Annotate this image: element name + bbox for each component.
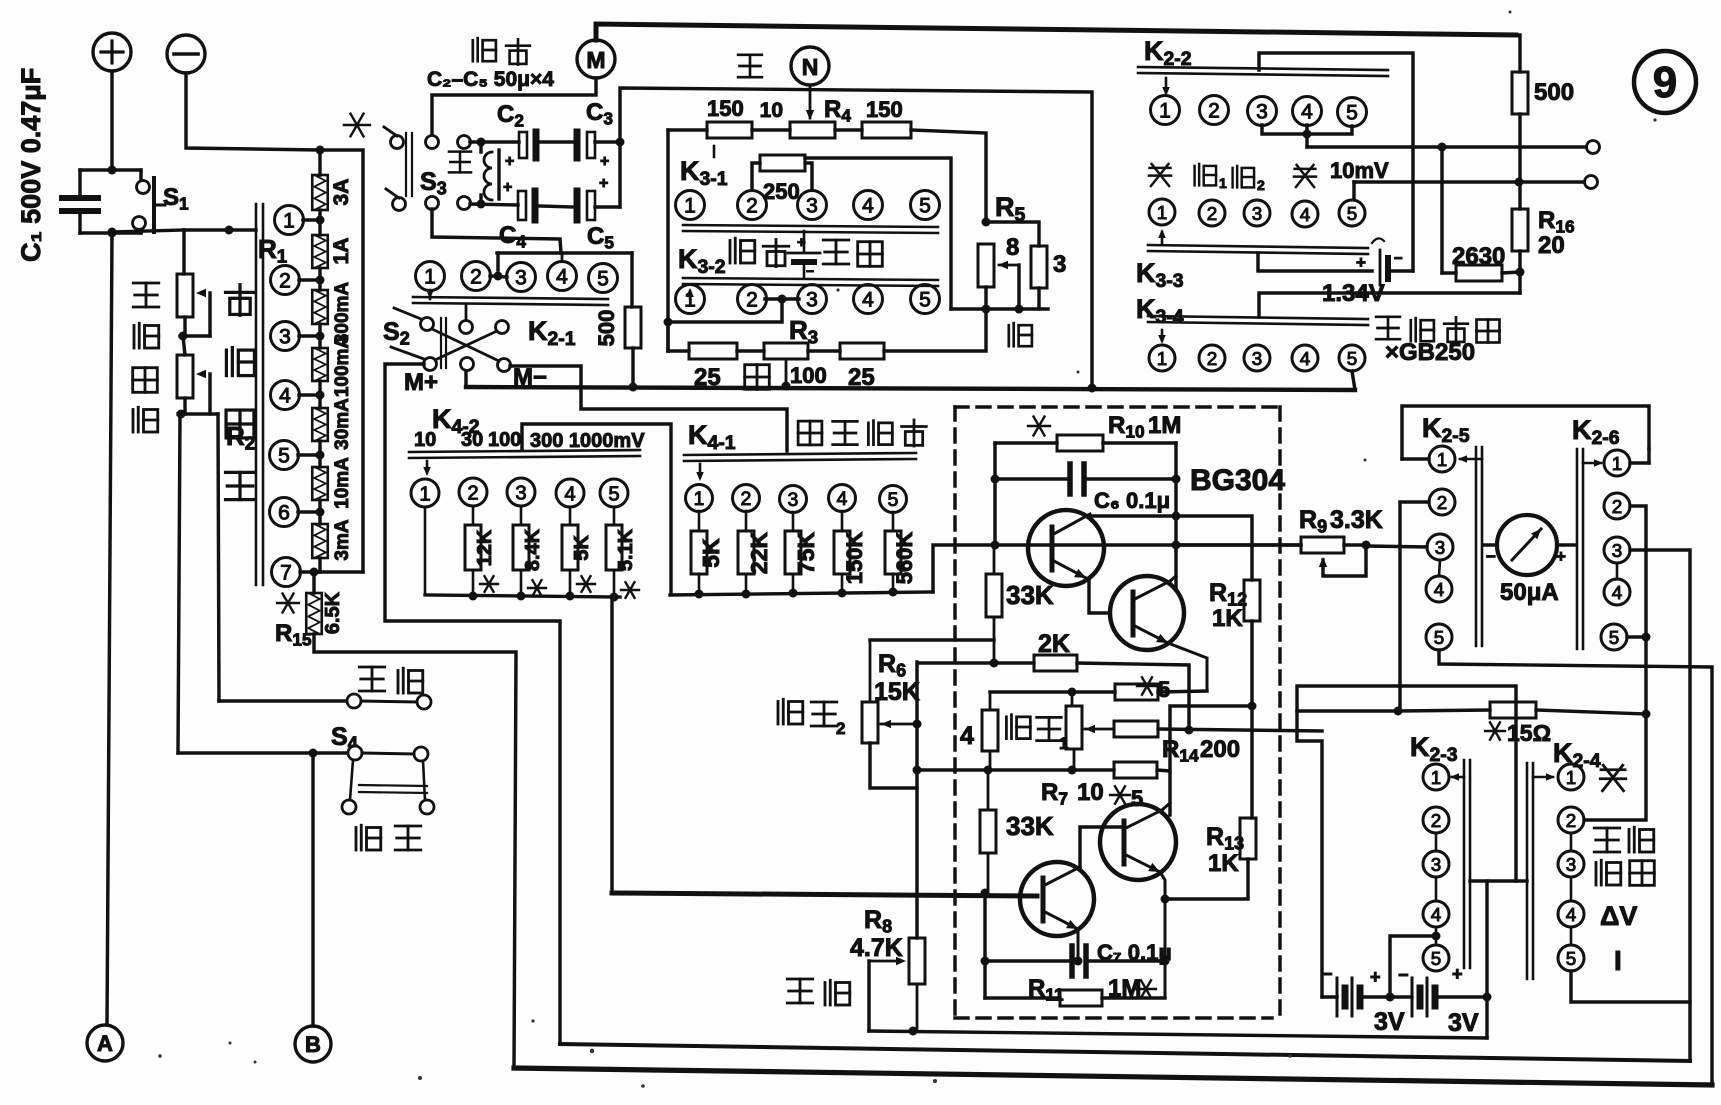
terminal - (negative output)	[167, 35, 205, 73]
K4-2 wiper rail	[409, 450, 640, 452]
K4-2 bus	[425, 595, 620, 597]
svg-text:15Ω: 15Ω	[1507, 720, 1551, 746]
resistor R16 20	[1518, 182, 1521, 209]
arrow K2-3 contact1	[1452, 776, 1464, 779]
K2-6 wiper rail	[1576, 449, 1579, 649]
battery compensation cell	[803, 231, 806, 252]
shunt resistor 1A	[312, 235, 328, 268]
K2-4 contacts	[1558, 764, 1584, 790]
shunt resistor 10mA	[312, 467, 328, 500]
svg-text:3: 3	[1431, 854, 1441, 875]
capacitor C5	[539, 206, 573, 207]
R5 bottom rail	[951, 307, 1048, 310]
wire K2-6 contact1	[1630, 461, 1649, 464]
wire R1 top to bracket	[184, 228, 256, 231]
resistor R14 200	[1114, 721, 1158, 737]
wire S3 lower to K2-1 select	[432, 209, 561, 253]
label cu (coarse)	[745, 365, 770, 390]
svg-text:C₂–C₅ 50μ×4: C₂–C₅ 50μ×4	[427, 68, 554, 91]
link contacts 3-4	[1439, 560, 1440, 576]
R3 wiper down to bus	[785, 359, 788, 386]
switch block K2-1 contacts	[416, 262, 445, 291]
wire R6 top link	[870, 638, 994, 641]
svg-text:100: 100	[488, 429, 521, 451]
svg-text:2: 2	[1207, 203, 1217, 224]
resistor 5K (K4-1)	[698, 511, 701, 531]
capacitor C7	[985, 959, 1068, 962]
dashed box BG304	[955, 407, 1280, 1018]
svg-text:C₁ 500V 0.47μF: C₁ 500V 0.47μF	[16, 68, 46, 262]
svg-text:4: 4	[1431, 904, 1441, 925]
potentiometer R3	[737, 349, 764, 352]
svg-text:150K: 150K	[842, 532, 867, 585]
svg-text:−: −	[1322, 964, 1333, 984]
wire K2-5 contact5 bottom	[1439, 650, 1712, 1085]
terminal B	[295, 1026, 331, 1062]
svg-text:4: 4	[1300, 348, 1310, 369]
tap 2	[271, 266, 300, 295]
wiper arrow from R14	[1085, 725, 1095, 733]
svg-text:+: +	[1356, 253, 1366, 272]
svg-text:5: 5	[1346, 102, 1358, 125]
resistor R7 10	[1114, 762, 1157, 778]
shunt resistor 3A	[312, 175, 328, 210]
svg-text:10: 10	[760, 99, 783, 122]
K2-5 contacts	[1429, 446, 1455, 472]
wire 2630/R16 to K3-4 rail	[1259, 293, 1520, 317]
svg-text:4: 4	[862, 195, 874, 218]
svg-text:1: 1	[1612, 453, 1622, 474]
resistor 250	[752, 163, 760, 190]
shunt resistor 30mA	[312, 408, 328, 441]
svg-text:5: 5	[1431, 948, 1441, 969]
capacitor C6	[995, 477, 1066, 480]
svg-text:2: 2	[470, 266, 482, 289]
capacitor C1 loop	[78, 170, 81, 198]
tap 5	[270, 441, 299, 470]
svg-text:N: N	[802, 54, 819, 80]
tap 1	[275, 206, 304, 235]
wire R10/C6 right vertical	[1174, 443, 1177, 590]
svg-text:5: 5	[1158, 677, 1170, 702]
svg-text:−: −	[1394, 250, 1403, 267]
svg-text:−: −	[1486, 547, 1496, 566]
svg-text:I: I	[1614, 945, 1622, 976]
svg-text:500: 500	[594, 310, 619, 347]
long output wire to meter	[1176, 543, 1301, 546]
K4-1 wiper rail	[684, 453, 916, 455]
capacitor C2	[470, 140, 519, 143]
svg-text:5: 5	[1609, 627, 1619, 648]
wire from C1 loop to A	[107, 233, 112, 1024]
svg-text:3: 3	[1252, 348, 1262, 369]
transistor Q4	[1100, 804, 1176, 880]
svg-text:2: 2	[1612, 496, 1622, 517]
Q1 collector wire	[1090, 516, 1252, 580]
svg-text:25: 25	[694, 364, 721, 391]
R5 node and wires	[982, 218, 991, 227]
wire R6 node down to R8	[915, 662, 918, 938]
wire R12 to R13	[1250, 621, 1253, 818]
svg-text:4: 4	[556, 266, 568, 289]
svg-text:50μA: 50μA	[1500, 579, 1559, 606]
svg-text:1M: 1M	[1148, 412, 1181, 439]
svg-text:+: +	[1452, 964, 1463, 984]
tap 7	[272, 558, 301, 587]
wire K2-3 4-5 to battery mid	[1435, 927, 1438, 945]
svg-text:30: 30	[461, 429, 483, 451]
meter M circle	[577, 40, 615, 78]
capacitor C4	[470, 204, 518, 205]
wire K4-1 bus up to BG304 input	[933, 545, 1301, 592]
output line 1	[1307, 145, 1586, 148]
meter block box	[1402, 406, 1649, 459]
svg-text:BG304: BG304	[1190, 464, 1285, 497]
rheostat R2 fine	[183, 336, 185, 355]
svg-text:1A: 1A	[330, 238, 353, 265]
resistor 33K upper	[993, 545, 996, 574]
svg-text:2: 2	[836, 719, 845, 738]
svg-text:22K: 22K	[746, 532, 772, 575]
K3-2 contacts	[676, 285, 705, 314]
svg-text:9: 9	[1653, 58, 1677, 107]
svg-text:6.5K: 6.5K	[322, 591, 344, 634]
wire R13 bottom	[1165, 859, 1248, 899]
wire right bus of shunt chain	[314, 570, 363, 573]
arrow K2-2	[1165, 78, 1168, 92]
wire 250 to R5 bottom rail	[805, 158, 951, 309]
Q3 collector to Q4 base	[1080, 827, 1121, 867]
svg-text:3: 3	[1252, 203, 1262, 224]
resistor 22K	[745, 511, 748, 531]
svg-text:5: 5	[919, 289, 931, 312]
resistor 12K	[472, 506, 475, 525]
paper specks	[418, 1076, 422, 1080]
svg-text:1: 1	[424, 266, 436, 289]
label zhong (middle)	[738, 55, 762, 77]
svg-text:3: 3	[806, 195, 818, 218]
svg-text:M+: M+	[404, 369, 438, 396]
arrow K2-4 contact1	[1533, 776, 1553, 779]
svg-text:33K: 33K	[1006, 811, 1054, 841]
current-range bracket (double line)	[255, 204, 258, 585]
pot R8	[909, 938, 925, 984]
svg-text:+: +	[1370, 967, 1381, 987]
svg-text:5: 5	[608, 483, 619, 505]
wire K2-1 feed with 500 resistor	[630, 253, 633, 307]
svg-text:4: 4	[1612, 582, 1622, 603]
K2-5 wiper rail	[1475, 447, 1478, 646]
resistor R13 1K	[1240, 818, 1256, 859]
Q4 emitter down	[1160, 872, 1165, 998]
resistor R12 1K	[1244, 580, 1260, 621]
wire dianfa up to R2 node	[218, 414, 219, 701]
svg-text:B: B	[305, 1032, 321, 1057]
svg-text:5K: 5K	[571, 535, 593, 561]
pot R6	[869, 640, 872, 702]
svg-text:300mA: 300mA	[332, 282, 353, 345]
resistor 8.4K	[520, 506, 523, 525]
wire K3 row to R5	[911, 130, 986, 222]
label dian-ya-ce-cheng (voltage ranges)	[798, 421, 822, 445]
svg-text:2: 2	[1208, 100, 1220, 123]
wire - terminal down to shunt chain	[186, 73, 363, 572]
svg-text:5: 5	[888, 489, 899, 511]
label xin-gong battery (zinc mercury cell)	[1376, 317, 1400, 339]
coil of filter	[484, 152, 492, 200]
wire C7/R11 left vertical	[983, 893, 986, 998]
svg-text:30mA: 30mA	[332, 398, 353, 450]
svg-text:4: 4	[1301, 101, 1313, 124]
K3-4 contacts	[1149, 345, 1175, 371]
wire K4-2 bus down to thick lower rail	[610, 597, 613, 893]
svg-text:150: 150	[866, 97, 903, 122]
K2-3 links 2-3-4	[1435, 833, 1438, 851]
svg-text:−: −	[806, 263, 814, 279]
resistor 75K	[792, 512, 795, 531]
link K2-6 contacts 3-4	[1616, 563, 1619, 579]
box 300 1000mV	[522, 424, 671, 594]
wire contacts 2-3 junction	[765, 297, 799, 300]
svg-text:3.3K: 3.3K	[1330, 506, 1383, 534]
tap 6	[270, 498, 299, 527]
wire R3 row	[666, 322, 669, 351]
top bus wire	[596, 24, 1516, 40]
svg-text:3: 3	[1612, 540, 1622, 561]
label cu-tiao (coarse adj)	[133, 283, 159, 307]
switch S3	[391, 136, 404, 149]
svg-text:5K: 5K	[698, 538, 724, 568]
svg-text:+: +	[503, 179, 512, 196]
resistor 500 (top right)	[1516, 34, 1520, 37]
svg-text:12K: 12K	[474, 529, 496, 566]
svg-text:2: 2	[467, 482, 478, 504]
bottom rail 2 (thick)	[514, 1068, 1712, 1085]
svg-text:1: 1	[1159, 100, 1171, 123]
svg-text:5: 5	[1434, 627, 1444, 648]
svg-text:4: 4	[837, 488, 848, 510]
Q3 emitter down	[1077, 929, 1080, 961]
K2-4 wiper rail	[1526, 763, 1529, 979]
resistor 5K (K4-2)	[569, 507, 572, 525]
label tiao-ling-2 (zero adj 2)	[778, 699, 803, 724]
svg-text:4: 4	[564, 483, 575, 505]
transistor Q2	[1110, 576, 1184, 650]
label jiao-zheng (calibrate)	[1594, 828, 1620, 852]
svg-text:25: 25	[848, 364, 875, 391]
svg-text:2: 2	[746, 195, 758, 218]
svg-text:10: 10	[414, 429, 436, 451]
svg-text:1: 1	[694, 488, 705, 510]
wire R3 right to R5 bottom	[884, 309, 986, 351]
labels guan bu1 bu2 guan	[1149, 164, 1171, 186]
svg-text:+: +	[505, 153, 514, 170]
svg-text:500: 500	[1534, 79, 1574, 106]
label dian-liu-ce-cheng (current ranges, vertical)	[226, 285, 255, 316]
wire N down to R4 with arrow	[809, 85, 812, 118]
svg-text:C₇ 0.1μ: C₇ 0.1μ	[1097, 940, 1172, 965]
svg-text:ΔV: ΔV	[1600, 901, 1637, 931]
K3-2 lower wiper rail	[683, 278, 938, 280]
svg-text:5: 5	[1347, 203, 1357, 224]
wire C5 right to junction	[595, 205, 620, 208]
svg-text:A: A	[97, 1031, 113, 1056]
svg-text:3: 3	[1256, 101, 1268, 124]
label xi (fine)	[1009, 323, 1032, 346]
svg-text:8: 8	[1006, 234, 1019, 261]
svg-text:×GB250: ×GB250	[1385, 339, 1475, 366]
svg-text:1: 1	[419, 483, 430, 505]
svg-text:300 1000mV: 300 1000mV	[530, 430, 645, 452]
pot tiaoling1	[1071, 692, 1074, 706]
wire K2-3 wiper bottom to battery	[1470, 879, 1527, 882]
label tiao-ling-1 (zero adj 1)	[1006, 715, 1030, 739]
wire R2 node down to S4	[178, 414, 180, 753]
resistor 560K	[892, 512, 895, 531]
svg-text:4: 4	[960, 722, 974, 750]
Q2 emitter wire	[1168, 643, 1207, 691]
label ji-hua (polarization)	[730, 238, 755, 263]
K4-1 contacts	[686, 485, 713, 512]
svg-text:3: 3	[1435, 537, 1445, 558]
K4-1 bus	[670, 592, 933, 595]
resistor 33K lower	[987, 770, 990, 810]
svg-text:1: 1	[1437, 449, 1447, 470]
svg-text:2: 2	[1207, 348, 1217, 369]
svg-text:5: 5	[919, 195, 931, 218]
svg-text:4: 4	[1300, 204, 1310, 225]
wire K2-6 contact3 right	[1630, 550, 1690, 1061]
K4-2 contacts	[411, 479, 439, 507]
terminal A	[87, 1025, 123, 1061]
svg-text:2: 2	[1566, 810, 1576, 831]
main bus wire (row y=387)	[466, 387, 1355, 390]
K2-3 wiper rail	[1463, 760, 1466, 968]
K3-3 wiper rail	[1148, 245, 1368, 248]
svg-text:3: 3	[788, 489, 799, 511]
wire R1 feed from C1 bottom	[112, 230, 184, 232]
svg-text:15K: 15K	[874, 678, 920, 706]
shunt resistor 3mA	[312, 524, 328, 558]
svg-text:1K: 1K	[1212, 605, 1243, 632]
resistor 150K	[841, 511, 844, 531]
Q2 collector wire	[1170, 576, 1176, 581]
svg-text:2: 2	[1437, 492, 1447, 513]
wire K2-5 contact2	[1400, 502, 1429, 710]
svg-text:5: 5	[1347, 348, 1357, 369]
output line 2 (10mV)	[1354, 180, 1584, 183]
svg-text:+: +	[1556, 547, 1566, 566]
wire M+ to K4-2 left rail	[385, 364, 560, 1044]
label bu-chang (compensation)	[823, 240, 849, 264]
svg-text:+: +	[600, 153, 609, 170]
arrow to contact1	[426, 461, 429, 472]
arrow under contact 1	[429, 290, 432, 299]
K2-3 contacts	[1423, 764, 1449, 790]
tap 4	[271, 381, 300, 410]
wire battery right up to K2-3 wiper	[1485, 881, 1488, 997]
label guan (off)	[1600, 765, 1626, 791]
svg-text:2: 2	[746, 289, 758, 312]
svg-text:4: 4	[1434, 579, 1444, 600]
tap 3	[271, 322, 300, 351]
svg-text:C₆ 0.1μ: C₆ 0.1μ	[1094, 488, 1170, 513]
rheostat R1 coarse	[182, 230, 185, 274]
resistor 25 left (R3 row)	[668, 349, 689, 352]
transistor Q3	[1020, 862, 1094, 936]
wire row 770	[917, 768, 1114, 771]
thick rail from K4-2 bus to Q3 base	[612, 893, 1037, 896]
K2-2 wiper rail	[1138, 67, 1388, 70]
svg-text:3: 3	[515, 267, 527, 290]
reference mark near shunt chain top	[344, 114, 370, 137]
svg-text:M: M	[586, 47, 605, 73]
wire K2-6 contact2 down	[1584, 506, 1646, 820]
svg-text:1: 1	[283, 210, 295, 233]
capacitor C3	[540, 140, 573, 143]
svg-text:1: 1	[684, 195, 696, 218]
star mark near R10	[1028, 417, 1050, 436]
resistor 5.1K	[613, 507, 616, 525]
K2-1 wiper rail (double line)	[413, 297, 608, 299]
svg-text:3A: 3A	[330, 179, 353, 206]
K3-1 contacts	[676, 191, 705, 220]
svg-text:6: 6	[278, 502, 290, 525]
wire + terminal down	[110, 71, 113, 170]
svg-text:7: 7	[280, 562, 292, 585]
Q4 collector up	[1162, 803, 1170, 810]
svg-text:1K: 1K	[1208, 850, 1239, 877]
wire S4 to B	[311, 753, 314, 1026]
current shunt chain wire	[318, 150, 321, 175]
svg-text:2: 2	[741, 488, 752, 510]
svg-text:1: 1	[1157, 202, 1167, 223]
svg-text:560K: 560K	[892, 532, 917, 585]
arrow contact1 up	[689, 291, 692, 298]
svg-text:3: 3	[515, 482, 526, 504]
potentiometer R4	[752, 128, 790, 131]
svg-text:3V: 3V	[1374, 1008, 1405, 1036]
K3-4 wiper rail	[1148, 316, 1368, 319]
svg-text:150: 150	[707, 96, 744, 121]
resistor 25 right (R3 row)	[808, 349, 840, 352]
wire R7 up to R12/R13 tap	[1170, 706, 1252, 771]
arrow into K2-5 contact1	[1402, 457, 1429, 460]
terminal + (positive output)	[93, 33, 131, 71]
svg-text:3: 3	[1053, 251, 1066, 278]
svg-text:1: 1	[1566, 767, 1576, 788]
arrow K3-4 contact1	[1161, 330, 1164, 340]
wire feed to contacts 2-3	[497, 251, 632, 254]
svg-text:1: 1	[1431, 767, 1441, 788]
K3 box left edge	[666, 130, 669, 351]
dianfa (electrical method) switch	[359, 667, 385, 691]
resistor 150 right	[835, 128, 862, 131]
wire K2-2 rail to battery loop	[1259, 53, 1413, 271]
svg-text:5: 5	[278, 445, 290, 468]
label ce-jing (well logging)	[356, 825, 381, 850]
svg-text:5.1K: 5.1K	[615, 528, 637, 571]
label jiao-zheng (calibrate)	[787, 979, 813, 1003]
label tiao-ling (zero)	[1596, 860, 1621, 885]
svg-text:2: 2	[1257, 177, 1265, 193]
wire R10 left down	[993, 443, 996, 545]
wire M to filter	[432, 78, 596, 136]
K2-4 links	[1570, 833, 1573, 851]
wire 10mV from K3-3 contact5	[1352, 182, 1355, 199]
svg-text:+: +	[797, 234, 806, 251]
svg-text:4.7K: 4.7K	[850, 934, 903, 962]
